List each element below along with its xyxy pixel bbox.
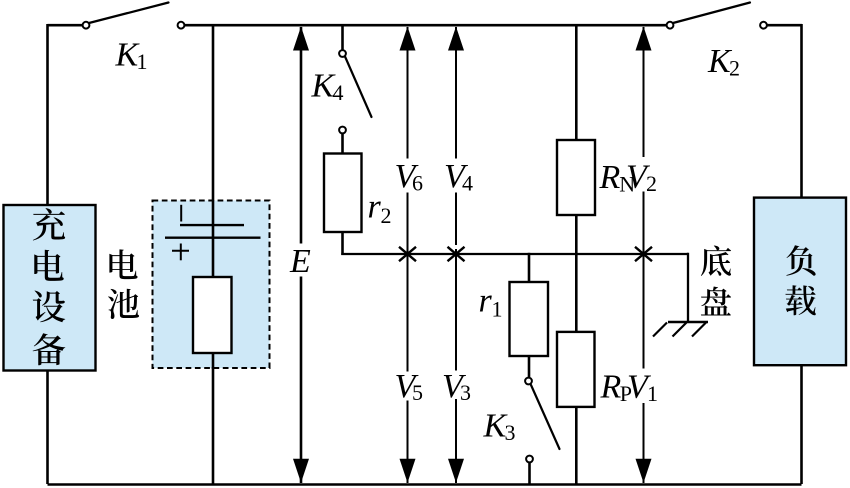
label 底 [701, 246, 731, 277]
resistor r2 box [324, 154, 362, 233]
svg-text:2: 2 [729, 55, 740, 80]
V6 arrowhead up [400, 27, 416, 51]
svg-text:2: 2 [381, 203, 392, 228]
switch K3 bottom contact [526, 456, 533, 463]
battery dashed box [153, 201, 270, 369]
svg-text:4: 4 [333, 80, 344, 105]
text 备 [33, 333, 66, 365]
switch K1 blade [89, 3, 169, 24]
chassis ground hatch 1 [692, 323, 706, 337]
svg-text:R: R [600, 369, 622, 406]
text 充 [33, 208, 65, 240]
label 载 [785, 285, 815, 315]
resistor RP box [557, 332, 595, 407]
wire battery branch inside [212, 200, 215, 369]
battery internal resistance box [193, 277, 232, 353]
V4-V3 line [455, 27, 457, 159]
svg-text:2: 2 [646, 171, 657, 196]
crossing mark X at V2 line [635, 247, 652, 261]
text 设 [33, 291, 65, 323]
switch K4 blade [345, 57, 372, 118]
battery short plate (negative) [180, 224, 244, 226]
switch K3 top contact [525, 378, 532, 385]
crossing mark X at V4 line [448, 247, 465, 261]
V3 arrowhead down [448, 459, 464, 483]
chassis ground bar [668, 321, 708, 323]
wire RN-RP branch [575, 24, 578, 484]
switch K2 left contact [667, 22, 674, 29]
crossing mark X at V6 line [399, 247, 416, 261]
battery long plate (positive) [165, 236, 261, 238]
chassis ground hatch 2 [673, 323, 687, 337]
wire top bus segment right [764, 24, 803, 27]
switch K4 bottom contact [339, 127, 346, 134]
wire chassis drop [687, 253, 689, 322]
V4 arrowhead up [448, 27, 464, 51]
label 电 (battery) [109, 249, 137, 279]
label 负 [786, 245, 815, 276]
resistor r1 box [510, 282, 549, 356]
switch K3 blade [531, 385, 560, 449]
svg-text:r: r [479, 283, 493, 320]
EMF E line [300, 27, 303, 244]
E arrowhead down [293, 459, 309, 483]
svg-text:1: 1 [647, 381, 658, 406]
svg-text:5: 5 [412, 380, 423, 405]
charging equipment box (充电设备) [4, 205, 96, 371]
svg-text:3: 3 [460, 380, 471, 405]
wire battery branch bottom [212, 367, 215, 484]
wire r2 to middle bus [341, 232, 344, 255]
battery plus mark [172, 250, 189, 252]
V2-V1 line [643, 27, 645, 157]
load box (负载) [754, 198, 846, 366]
svg-text:1: 1 [492, 297, 503, 322]
wire middle bus to r1 [528, 253, 531, 283]
label 盘 [701, 287, 731, 316]
svg-text:E: E [289, 243, 311, 280]
switch K2 blade [673, 3, 750, 24]
switch K4 top contact [339, 50, 346, 57]
svg-text:r: r [368, 189, 382, 226]
wire r1 to K3 [528, 356, 531, 378]
wire K4 stub [341, 24, 344, 50]
V5 arrowhead down [400, 459, 416, 483]
text 电 (charging box) [34, 250, 63, 281]
wire top bus segment left [48, 24, 87, 27]
wire battery branch top [212, 24, 215, 202]
V1 arrowhead down [636, 459, 652, 483]
svg-text:1: 1 [137, 49, 148, 74]
wire left branch [46, 24, 49, 484]
wire middle bus (chassis) [341, 253, 688, 255]
V2 arrowhead up [636, 27, 652, 51]
wire bottom bus [48, 483, 802, 486]
battery minus mark [180, 205, 182, 222]
wire K3 to bottom bus [528, 463, 531, 485]
chassis ground hatch 3 [653, 323, 667, 337]
wire load branch right [800, 24, 803, 484]
svg-text:3: 3 [505, 420, 516, 445]
svg-text:6: 6 [412, 171, 423, 196]
V6-V5 line [407, 27, 409, 159]
E arrowhead up [293, 27, 309, 51]
label 池 [108, 289, 139, 319]
wire K4 to r2 [341, 134, 344, 156]
switch K1 left contact [83, 22, 90, 29]
switch K1 right contact [178, 22, 185, 29]
svg-text:R: R [599, 159, 621, 196]
svg-text:4: 4 [462, 171, 473, 196]
wire top bus segment middle [181, 24, 670, 27]
resistor RN box [557, 140, 595, 215]
switch K2 right contact [760, 22, 767, 29]
